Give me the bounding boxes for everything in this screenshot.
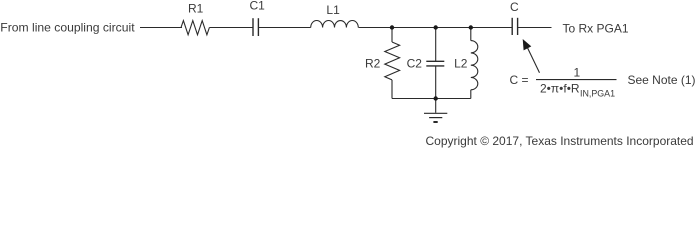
svg-text:R1: R1 (188, 1, 204, 15)
svg-text:L1: L1 (326, 3, 340, 17)
svg-text:1: 1 (574, 65, 581, 79)
svg-text:R2: R2 (365, 56, 381, 70)
svg-text:L2: L2 (454, 56, 468, 70)
svg-text:C1: C1 (250, 0, 266, 12)
svg-text:C: C (510, 0, 519, 14)
svg-text:From line coupling circuit: From line coupling circuit (0, 21, 135, 35)
svg-text:Copyright © 2017, Texas Instru: Copyright © 2017, Texas Instruments Inco… (426, 134, 694, 148)
svg-text:IN,PGA1: IN,PGA1 (580, 88, 615, 98)
svg-text:See Note (1): See Note (1) (628, 73, 695, 87)
svg-text:C =: C = (510, 73, 529, 87)
svg-text:To Rx PGA1: To Rx PGA1 (563, 22, 629, 36)
svg-text:C2: C2 (407, 56, 423, 70)
svg-text:2•π•f•R: 2•π•f•R (540, 82, 580, 96)
